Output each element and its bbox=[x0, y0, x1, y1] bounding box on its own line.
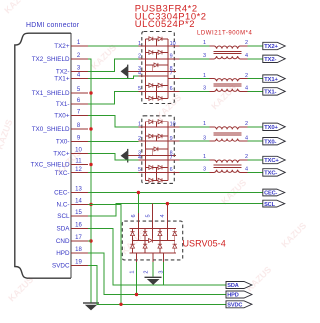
connector pin 12 TXC-: stub, number, name bbox=[55, 167, 88, 177]
svg-text:TX0+: TX0+ bbox=[264, 125, 278, 131]
pin line 1-10 bbox=[139, 126, 180, 128]
HDMI connector J1 body outline bbox=[15, 33, 71, 278]
svg-text:HPD: HPD bbox=[56, 250, 70, 257]
junction U3.4 on SCL line bbox=[166, 202, 169, 205]
TVS diode between rails bbox=[146, 147, 168, 156]
net tag SDA bbox=[226, 282, 252, 290]
junction N.C vertical on SVDC row bbox=[119, 303, 122, 306]
svg-text:13: 13 bbox=[75, 187, 82, 193]
right rail bbox=[167, 39, 169, 99]
svg-text:5: 5 bbox=[145, 214, 151, 217]
svg-text:TX2-: TX2- bbox=[56, 69, 70, 76]
wire U3 pin5 up to SCL line bbox=[152, 204, 154, 239]
connector pin 7 TX0+: stub, number, name bbox=[54, 110, 88, 120]
junction on bus at pin 8 bbox=[89, 127, 92, 130]
wire TXC+ pin10 to U2.4 bbox=[88, 154, 139, 161]
pin line 4-7 bbox=[139, 159, 180, 161]
svg-text:6: 6 bbox=[170, 167, 173, 173]
wire U2.6 to FL4.3 bbox=[180, 171, 210, 173]
svg-text:2: 2 bbox=[144, 271, 150, 274]
junction on bus at pin 5 bbox=[89, 91, 92, 94]
wire CEC pin13 to tag CEC- bbox=[88, 192, 263, 194]
winding A bbox=[210, 79, 248, 82]
steering diode pair ch2 bbox=[146, 134, 168, 141]
wire CND pin17 to bus bbox=[88, 240, 91, 242]
svg-text:17: 17 bbox=[75, 235, 82, 241]
connector pin 4 TX1+: stub, number, name bbox=[54, 73, 88, 83]
svg-text:TX0-: TX0- bbox=[264, 139, 276, 145]
pin line 5-6 bbox=[139, 171, 180, 173]
svg-text:7: 7 bbox=[170, 155, 173, 161]
svg-text:11: 11 bbox=[75, 159, 82, 165]
right rail bbox=[167, 122, 169, 181]
steering diode pair ch3 bbox=[146, 165, 168, 172]
wire U3 pin3 down to SDA row bbox=[163, 253, 165, 262]
U3 pin numbers (rotated) bbox=[129, 214, 166, 273]
U3 top rail bbox=[130, 227, 176, 229]
choke pin numbers bbox=[203, 40, 248, 59]
svg-text:10: 10 bbox=[170, 41, 176, 47]
connector pin 1 TX2+: stub, number, name bbox=[54, 40, 88, 50]
wire FL2.2 to tag bbox=[248, 78, 263, 80]
svg-text:TX2+: TX2+ bbox=[54, 43, 70, 50]
U3 diode column 3 bbox=[158, 228, 162, 253]
chassis ground symbol on pin 3 bbox=[121, 65, 127, 79]
wire N.C pin14 to bus and down to SVDC row bbox=[88, 204, 121, 304]
svg-text:2: 2 bbox=[245, 121, 248, 127]
svg-text:1: 1 bbox=[203, 40, 206, 46]
steering diode pair ch4 bbox=[146, 172, 168, 182]
ESD array dashed outline bbox=[142, 116, 175, 184]
wire U3 pin2 down to ground bbox=[152, 253, 154, 262]
net tag TXC- bbox=[263, 169, 285, 177]
connector pin 2 TX2_SHIELD: stub, number, name bbox=[32, 53, 88, 63]
winding A bbox=[210, 127, 248, 130]
connector pin 3 TX2-: stub, number, name bbox=[56, 66, 88, 76]
svg-text:HDMI connector: HDMI connector bbox=[26, 22, 80, 29]
left rail bbox=[145, 39, 147, 99]
svg-text:1: 1 bbox=[203, 154, 206, 160]
wire HPD pin18 down to HPD row bbox=[88, 253, 226, 295]
svg-text:1: 1 bbox=[129, 271, 135, 274]
pin numbers right 10..6 bbox=[170, 122, 176, 174]
U3 bottom rail bbox=[130, 252, 176, 254]
wire SCL pin15 jog up to tag SCL bbox=[88, 204, 263, 216]
net tag TXC+ bbox=[263, 156, 285, 164]
svg-text:7: 7 bbox=[170, 71, 173, 77]
connector pin 9 TX0-: stub, number, name bbox=[56, 136, 88, 146]
svg-text:6: 6 bbox=[131, 214, 137, 217]
svg-text:TX2_SHIELD: TX2_SHIELD bbox=[32, 56, 70, 63]
wire FL3.4 to tag bbox=[248, 140, 263, 142]
connector pin 11 TXC_SHIELD: stub, number, name bbox=[31, 159, 88, 169]
core lines bbox=[214, 51, 242, 53]
svg-text:2: 2 bbox=[245, 73, 248, 79]
ground symbol at bottom of shield bus bbox=[83, 303, 99, 310]
svg-text:TXC+: TXC+ bbox=[264, 158, 279, 164]
connector pin 6 TX1-: stub, number, name bbox=[56, 98, 88, 108]
core lines bbox=[214, 133, 242, 135]
pin line 2-9 bbox=[139, 58, 180, 60]
steering diode pair ch3 bbox=[146, 83, 168, 91]
svg-text:1: 1 bbox=[203, 73, 206, 79]
svg-text:3: 3 bbox=[203, 86, 206, 92]
ground symbol below U3 bbox=[145, 277, 162, 284]
svg-text:ULC0524P*2: ULC0524P*2 bbox=[135, 18, 195, 29]
net tag SCL bbox=[263, 200, 285, 208]
wire FL4.4 to tag bbox=[248, 171, 263, 173]
wire: shield ground bus (pins 2,5,8,11,14,17 to GND) bbox=[88, 59, 91, 303]
wire SVDC pin19 down to SVDC row bbox=[88, 266, 226, 305]
svg-text:4: 4 bbox=[245, 53, 248, 59]
svg-text:HPD: HPD bbox=[227, 293, 238, 299]
svg-text:9: 9 bbox=[170, 54, 173, 60]
pin line 4-7 bbox=[139, 75, 169, 77]
TVS array U3 USRV05-4 dashed outline bbox=[122, 221, 182, 260]
svg-text:16: 16 bbox=[75, 223, 82, 229]
svg-text:TXC-: TXC- bbox=[264, 171, 277, 177]
winding B bbox=[210, 139, 248, 142]
net tag SVDC bbox=[226, 301, 252, 309]
wire U1.10 to FL1.1 bbox=[180, 45, 210, 47]
net tag HPD bbox=[226, 291, 252, 299]
wire FL1.2 to tag bbox=[248, 45, 263, 47]
junction on bus at pin 17 bbox=[89, 239, 92, 242]
chassis ground symbol on pin 3 bbox=[121, 149, 127, 163]
svg-text:TX2+: TX2+ bbox=[264, 44, 278, 50]
pin line 1-10 bbox=[139, 45, 180, 47]
net tag TX2- bbox=[263, 55, 285, 63]
svg-text:TXC_SHIELD: TXC_SHIELD bbox=[31, 162, 70, 169]
svg-text:CND: CND bbox=[56, 238, 70, 245]
junction U3.1 on HPD row bbox=[135, 293, 138, 296]
winding A bbox=[210, 46, 248, 49]
choke pin numbers bbox=[203, 154, 248, 172]
net tag TX2+ bbox=[263, 42, 285, 50]
wire U2.10 to FL3.1 bbox=[180, 126, 210, 128]
svg-text:2: 2 bbox=[245, 40, 248, 46]
junction U3.6 on CEC line bbox=[137, 191, 140, 194]
svg-text:4: 4 bbox=[245, 135, 248, 141]
U3 mid link right pair bbox=[160, 240, 175, 242]
net tag TX0+ bbox=[263, 123, 285, 131]
svg-text:TX1-: TX1- bbox=[56, 101, 70, 108]
wire TX1- pin6 to U1.5 bbox=[88, 91, 139, 104]
svg-text:CEC-: CEC- bbox=[54, 190, 69, 197]
pin line 5-6 bbox=[139, 90, 180, 92]
wire TX2+ pin1 to U1.1 bbox=[88, 45, 139, 47]
net tag TX0- bbox=[263, 138, 285, 146]
svg-text:TXC-: TXC- bbox=[55, 170, 70, 177]
svg-text:SVDC: SVDC bbox=[52, 263, 70, 270]
wire FL3.2 to tag bbox=[248, 126, 263, 128]
pin numbers left 1..5 bbox=[138, 122, 141, 174]
net tag CEC- bbox=[263, 189, 285, 197]
svg-text:15: 15 bbox=[75, 210, 82, 216]
svg-text:2: 2 bbox=[245, 154, 248, 160]
wire FL1.4 to tag bbox=[248, 58, 263, 60]
svg-text:3: 3 bbox=[203, 135, 206, 141]
wire SDA pin16 down to SDA row bbox=[88, 229, 226, 286]
wire U1.7 to FL2.1 bbox=[180, 78, 210, 80]
svg-text:3: 3 bbox=[203, 167, 206, 173]
connector pin 17 CND: stub, number, name bbox=[56, 235, 88, 245]
ESD array dashed outline bbox=[142, 32, 175, 104]
junction on bus at pin 14 bbox=[89, 203, 92, 206]
TVS diode between rails bbox=[146, 63, 168, 72]
svg-text:CEC-: CEC- bbox=[264, 191, 277, 197]
left rail bbox=[145, 122, 147, 181]
net tag TX1- bbox=[263, 88, 285, 96]
svg-text:TX0-: TX0- bbox=[56, 139, 70, 146]
svg-text:SCL: SCL bbox=[264, 202, 275, 208]
svg-text:TX0_SHIELD: TX0_SHIELD bbox=[32, 126, 70, 133]
connector pin 10 TXC+: stub, number, name bbox=[53, 148, 88, 158]
U3 mid link left pair bbox=[133, 240, 146, 242]
wire U3 pin6 up to CEC line bbox=[137, 193, 139, 214]
core lines bbox=[214, 165, 242, 167]
connector pin 16 SDA: stub, number, name bbox=[57, 223, 88, 233]
svg-text:19: 19 bbox=[75, 260, 82, 266]
svg-text:4: 4 bbox=[245, 167, 248, 173]
svg-text:TX1+: TX1+ bbox=[264, 77, 278, 83]
winding B bbox=[210, 89, 248, 92]
svg-text:1: 1 bbox=[203, 121, 206, 127]
svg-text:18: 18 bbox=[75, 247, 82, 253]
svg-text:LDWI21T-900M*4: LDWI21T-900M*4 bbox=[197, 31, 252, 37]
pin line 3-8 bbox=[128, 70, 176, 72]
wire U3 pin1 down to HPD row bbox=[136, 253, 138, 262]
wire U2.7 to FL4.1 bbox=[180, 159, 210, 161]
svg-text:14: 14 bbox=[75, 199, 82, 205]
wire TX0- pin9 to U2.2 bbox=[88, 140, 139, 142]
steering diode pair ch1 bbox=[146, 37, 168, 46]
svg-text:USRV05-4: USRV05-4 bbox=[183, 238, 226, 248]
pin line 3-8 bbox=[128, 155, 176, 157]
pin numbers right 10..6 bbox=[170, 41, 176, 92]
svg-text:SDA: SDA bbox=[227, 283, 238, 289]
winding A bbox=[210, 160, 248, 163]
wire U1.9 to FL1.3 bbox=[180, 58, 210, 60]
junction on bus at pin 11 bbox=[89, 163, 92, 166]
connector pin 18 HPD: stub, number, name bbox=[56, 247, 88, 257]
wire TX2- pin3 to U1.2 bbox=[88, 59, 139, 72]
wire U1.6 to FL2.3 bbox=[180, 90, 210, 92]
core lines bbox=[214, 84, 242, 86]
svg-text:N.C-: N.C- bbox=[57, 202, 70, 209]
svg-text:SVDC: SVDC bbox=[227, 302, 242, 308]
svg-text:TX1-: TX1- bbox=[264, 90, 276, 96]
connector pin 5 TX1_SHIELD: stub, number, name bbox=[32, 87, 88, 97]
choke pin numbers bbox=[203, 121, 248, 141]
connector pin 14 N.C-: stub, number, name bbox=[57, 199, 88, 209]
svg-text:SDA: SDA bbox=[57, 226, 71, 233]
svg-text:10: 10 bbox=[170, 122, 176, 128]
U3 center zener diode bbox=[145, 238, 160, 242]
winding B bbox=[210, 56, 248, 59]
connector pin 13 CEC-: stub, number, name bbox=[54, 187, 88, 197]
wire TX0+ pin7 to U2.1 bbox=[88, 116, 139, 127]
choke pin numbers bbox=[203, 73, 248, 92]
svg-text:6: 6 bbox=[170, 86, 173, 92]
svg-text:10: 10 bbox=[75, 148, 82, 154]
pin line 2-9 bbox=[139, 140, 180, 142]
svg-text:TX2-: TX2- bbox=[264, 57, 276, 63]
winding B bbox=[210, 170, 248, 173]
wire TX1+ pin4 to U1.4 bbox=[88, 76, 139, 79]
connector pin 19 SVDC: stub, number, name bbox=[52, 260, 88, 270]
wire TXC- pin12 to U2.5 bbox=[88, 172, 139, 174]
pin numbers left 1..5 bbox=[138, 41, 141, 92]
svg-text:12: 12 bbox=[75, 167, 82, 173]
svg-text:SCL: SCL bbox=[57, 213, 70, 220]
wire FL4.2 to tag bbox=[248, 159, 263, 161]
wire FL2.4 to tag bbox=[248, 90, 263, 92]
U3 diode column 4 bbox=[173, 228, 177, 253]
svg-text:4: 4 bbox=[245, 86, 248, 92]
wire U2.9 to FL3.3 bbox=[180, 140, 210, 142]
svg-text:TX1+: TX1+ bbox=[54, 76, 70, 83]
U3 diode column 2 bbox=[143, 228, 147, 253]
connector pin 8 TX0_SHIELD: stub, number, name bbox=[32, 123, 88, 133]
wire U3 pin4 up to SCL line bbox=[166, 204, 168, 241]
steering diode pair ch2 bbox=[146, 50, 168, 59]
net tag TX1+ bbox=[263, 75, 285, 83]
U3 diode column 1 bbox=[130, 228, 134, 253]
steering diode pair ch1 bbox=[146, 120, 168, 127]
svg-text:3: 3 bbox=[203, 53, 206, 59]
svg-text:TX1_SHIELD: TX1_SHIELD bbox=[32, 90, 70, 97]
svg-text:TXC+: TXC+ bbox=[53, 151, 70, 158]
svg-text:9: 9 bbox=[170, 136, 173, 142]
svg-text:TX0+: TX0+ bbox=[54, 113, 70, 120]
connector pin 15 SCL: stub, number, name bbox=[57, 210, 88, 220]
svg-text:4: 4 bbox=[160, 214, 166, 217]
steering diode pair ch4 bbox=[146, 91, 168, 100]
